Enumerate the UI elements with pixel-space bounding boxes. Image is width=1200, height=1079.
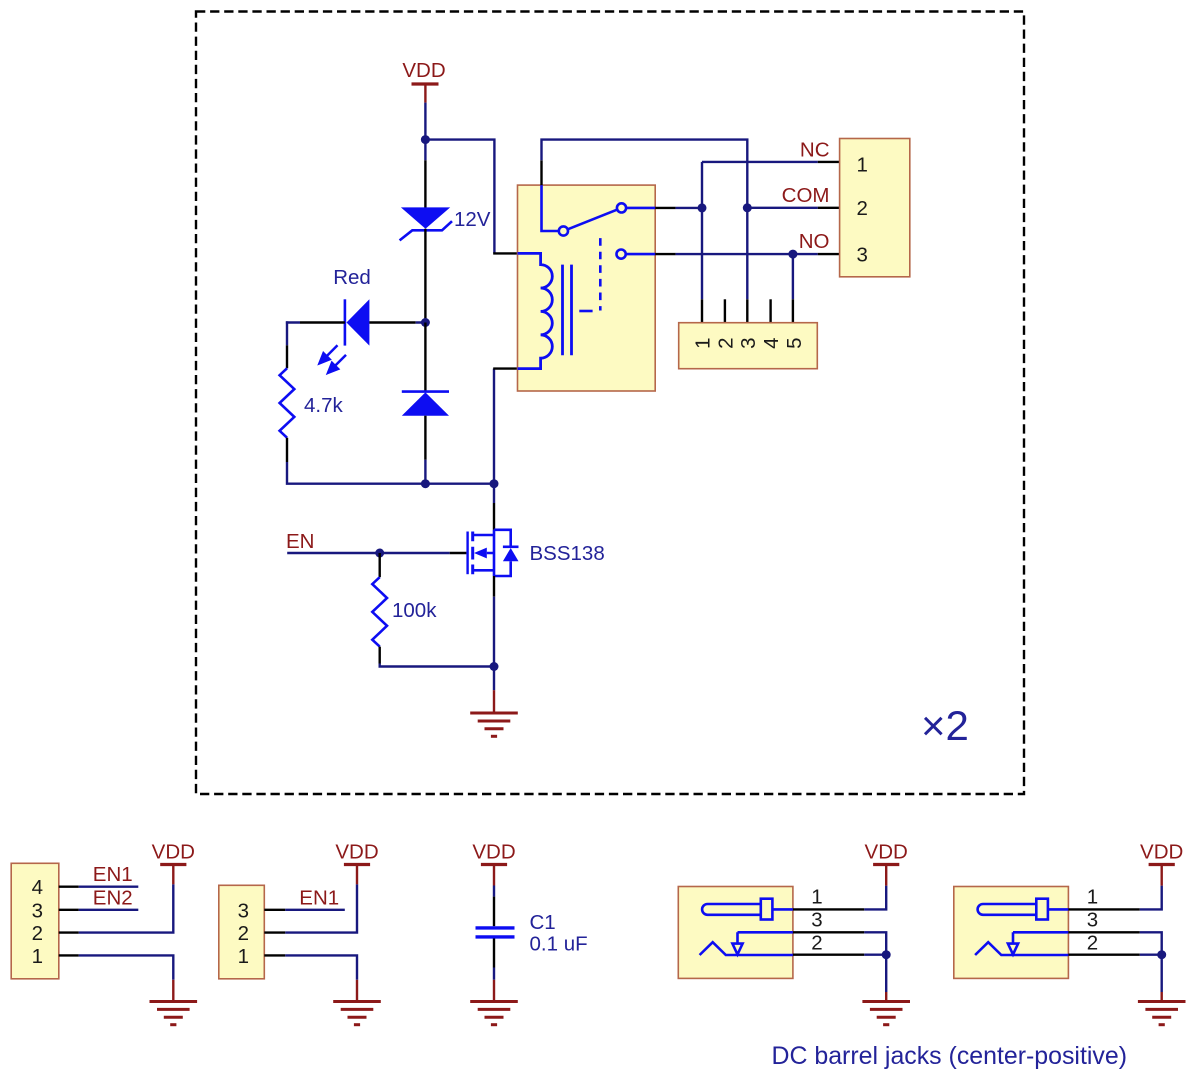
pin lead Q1 gate bbox=[450, 552, 467, 554]
ground stem (C1) bbox=[493, 980, 495, 1001]
relay coil bbox=[518, 253, 553, 368]
svg-text:COM: COM bbox=[782, 184, 830, 207]
svg-text:3: 3 bbox=[32, 899, 43, 922]
svg-text:3: 3 bbox=[811, 909, 822, 932]
svg-text:DC barrel jacks (center-positi: DC barrel jacks (center-positive) bbox=[772, 1042, 1127, 1070]
svg-text:1: 1 bbox=[32, 945, 43, 968]
power symbol VDD (main) bbox=[402, 59, 445, 103]
pin lead D3 bottom bbox=[424, 416, 426, 460]
wire EN1 (X4) bbox=[79, 886, 139, 888]
node LED junction bbox=[421, 318, 430, 327]
svg-text:4: 4 bbox=[32, 876, 43, 899]
wire node to zener bbox=[424, 140, 426, 161]
jack switch contact bbox=[732, 932, 793, 954]
relay NO contact bbox=[617, 250, 656, 259]
power symbol VDD (X4) bbox=[152, 841, 195, 885]
node NC junction bbox=[698, 203, 707, 212]
wire J1 node to ground bbox=[885, 955, 887, 992]
svg-text:VDD: VDD bbox=[472, 841, 515, 864]
pin lead X3 pin 5 bbox=[792, 299, 794, 323]
resistor R2 100k bbox=[372, 577, 387, 646]
svg-text:VDD: VDD bbox=[402, 59, 445, 82]
svg-text:1: 1 bbox=[857, 154, 868, 177]
pin lead X5 pin 2 bbox=[264, 931, 285, 933]
ground symbol (main) bbox=[470, 713, 518, 736]
wire J1 pin1 to VDD bbox=[864, 886, 886, 910]
svg-text:2: 2 bbox=[857, 197, 868, 220]
wire J1 pin3 to ground node bbox=[864, 932, 886, 954]
pin lead R1 bottom bbox=[286, 438, 288, 462]
svg-text:EN: EN bbox=[286, 530, 314, 553]
pin lead zener top bbox=[424, 160, 426, 207]
wire X4 pin1 to ground bbox=[79, 955, 174, 979]
pin lead relay NO contact bbox=[655, 253, 675, 255]
relay switch common entry bbox=[542, 185, 559, 231]
wire relay common pin lead (top) bbox=[540, 160, 542, 185]
connector X2 (terminal block NC/COM/NO) bbox=[840, 139, 910, 277]
svg-text:4.7k: 4.7k bbox=[304, 394, 343, 417]
LED D1 bbox=[345, 299, 370, 345]
ground symbol (X5) bbox=[333, 1002, 381, 1025]
ground stem (main) bbox=[493, 690, 495, 712]
wire X5 pin2 to VDD bbox=[285, 884, 357, 932]
wire source to ground bbox=[493, 597, 495, 691]
wire NC net bbox=[676, 162, 818, 299]
pin lead X4 pin 2 bbox=[59, 931, 79, 933]
pin lead X2 pin 3 bbox=[818, 253, 840, 255]
power symbol VDD (X5) bbox=[335, 841, 378, 885]
pin lead X3 pin 3 bbox=[746, 299, 748, 323]
DC barrel jack J2 (copy of J1) bbox=[954, 841, 1186, 1025]
pin lead R1 top bbox=[286, 345, 288, 368]
ground stem (X4) bbox=[172, 980, 174, 1001]
svg-text:2: 2 bbox=[238, 922, 249, 945]
wire COM net top run bbox=[542, 140, 748, 300]
pin lead X4 pin 1 bbox=[59, 954, 79, 956]
svg-text:EN2: EN2 bbox=[93, 886, 133, 909]
relay NC contact bbox=[617, 203, 655, 212]
svg-text:3: 3 bbox=[238, 899, 249, 922]
wire relay coil pin2 down to drain node bbox=[493, 369, 495, 484]
wire X4 pin2 to VDD bbox=[79, 884, 174, 932]
jack sleeve contact bbox=[700, 942, 793, 955]
connector X4 (4-pin header) bbox=[11, 863, 59, 979]
transistor Q1 BSS138 bbox=[468, 530, 519, 576]
svg-text:1: 1 bbox=[238, 945, 249, 968]
wire D3 to node bbox=[424, 460, 426, 484]
pin lead Q1 drain bbox=[493, 503, 495, 530]
node A (VDD junction) bbox=[421, 135, 430, 144]
ground stem (J1) bbox=[885, 992, 887, 1001]
node source junction bbox=[490, 662, 499, 671]
wire C1 to ground bbox=[493, 968, 495, 980]
relay K1 body bbox=[518, 185, 656, 391]
pin lead relay coil pin 1 bbox=[493, 252, 517, 254]
relay core bbox=[563, 265, 572, 356]
svg-text:Red: Red bbox=[333, 266, 371, 289]
svg-text:NC: NC bbox=[800, 139, 830, 162]
capacitor C1 bbox=[476, 928, 515, 937]
pin lead X3 pin 2 (n.c.) bbox=[724, 299, 726, 323]
wire zener to LED node bbox=[424, 229, 426, 323]
svg-text:C1: C1 bbox=[530, 911, 556, 934]
ground symbol (X4) bbox=[150, 1002, 198, 1025]
svg-text:VDD: VDD bbox=[335, 841, 378, 864]
svg-text:NO: NO bbox=[799, 230, 830, 253]
pin lead relay coil pin 2 bbox=[493, 367, 517, 369]
svg-text:3: 3 bbox=[857, 244, 868, 267]
wire diode D3 top lead bbox=[424, 323, 426, 392]
node COM junction bbox=[743, 203, 752, 212]
relay switch arm bbox=[568, 210, 618, 230]
pin lead relay NC contact bbox=[655, 207, 675, 209]
node J1 ground junction bbox=[882, 950, 891, 959]
pin lead J1 pin 2 bbox=[793, 954, 864, 956]
svg-text:0.1 uF: 0.1 uF bbox=[530, 932, 588, 955]
pin lead C1 top bbox=[493, 897, 495, 927]
pin lead R2 top bbox=[379, 553, 381, 577]
DC barrel jack J1 bbox=[678, 841, 910, 1025]
wire LED right lead to node bbox=[369, 321, 415, 323]
jack center pin bbox=[702, 899, 793, 920]
svg-text:EN1: EN1 bbox=[299, 886, 339, 909]
wire VDD stem to node bbox=[424, 103, 426, 140]
node bottom rail right (drain) bbox=[490, 479, 499, 488]
wire VDD node to relay coil pin 1 bbox=[425, 140, 494, 254]
svg-text:VDD: VDD bbox=[152, 841, 195, 864]
svg-text:1: 1 bbox=[692, 337, 715, 348]
wire VDD to C1 bbox=[493, 886, 495, 897]
svg-text:2: 2 bbox=[811, 932, 822, 955]
node EN junction bbox=[375, 549, 384, 558]
pin lead X3 pin 4 (n.c.) bbox=[769, 299, 771, 323]
wire LED elbow down to R1 bbox=[286, 321, 288, 345]
wire NO net bbox=[676, 254, 818, 299]
ground symbol (C1) bbox=[470, 1002, 518, 1025]
wire EN1 (X5) bbox=[285, 909, 345, 911]
svg-text:3: 3 bbox=[737, 337, 760, 348]
ground stem (X5) bbox=[356, 980, 358, 1001]
svg-text:VDD: VDD bbox=[865, 841, 908, 864]
power symbol VDD (C1) bbox=[472, 841, 515, 886]
relay actuator dashed link bbox=[579, 238, 600, 311]
svg-text:100k: 100k bbox=[392, 599, 437, 622]
wire COM to connector pin 2 bbox=[747, 207, 818, 209]
wire EN2 (X4) bbox=[79, 909, 139, 911]
svg-text:2: 2 bbox=[32, 922, 43, 945]
svg-text:4: 4 bbox=[760, 337, 783, 348]
relay switch pivot contact bbox=[559, 226, 568, 235]
pin lead Q1 source bbox=[493, 576, 495, 597]
pin lead X2 pin 2 bbox=[818, 207, 840, 209]
pin lead X3 pin 1 bbox=[701, 299, 703, 323]
LED emission arrows bbox=[320, 345, 347, 373]
svg-text:12V: 12V bbox=[454, 208, 491, 231]
dashed schematic frame bbox=[196, 12, 1024, 795]
wire drain node to Q1 bbox=[493, 484, 495, 503]
wire EN net bbox=[287, 552, 450, 554]
wire bottom rail bbox=[425, 483, 494, 485]
flyback diode D3 bbox=[402, 392, 449, 416]
node bottom rail left bbox=[421, 479, 430, 488]
svg-text:2: 2 bbox=[714, 337, 737, 348]
svg-text:5: 5 bbox=[783, 337, 806, 348]
pin lead X5 pin 3 bbox=[264, 909, 285, 911]
wire J1 pin2 to ground node bbox=[864, 954, 886, 956]
pin lead C1 bottom bbox=[493, 939, 495, 968]
resistor R1 4.7k bbox=[280, 368, 295, 437]
connector X5 (3-pin header) bbox=[219, 885, 264, 979]
svg-text:×2: ×2 bbox=[921, 702, 969, 749]
svg-text:EN1: EN1 bbox=[93, 863, 133, 886]
pin lead X4 pin 4 bbox=[59, 886, 79, 888]
pin lead X4 pin 3 bbox=[59, 909, 79, 911]
pin lead X2 pin 1 bbox=[818, 161, 840, 163]
node NO junction bbox=[788, 250, 797, 259]
ground symbol (J1) bbox=[862, 1002, 910, 1025]
wire R1 to bottom rail bbox=[287, 462, 425, 484]
pin lead X5 pin 1 bbox=[264, 954, 285, 956]
pin lead J1 pin 1 bbox=[793, 908, 864, 910]
wire LED to junction bbox=[286, 321, 426, 323]
jack body bbox=[678, 887, 793, 979]
svg-text:1: 1 bbox=[811, 886, 822, 909]
zener diode 12V bbox=[400, 207, 452, 240]
connector X3 (5-pin header) bbox=[679, 323, 818, 369]
svg-text:BSS138: BSS138 bbox=[530, 542, 605, 565]
wire X5 pin1 to ground bbox=[285, 955, 357, 979]
wire LED left lead bbox=[300, 321, 345, 323]
pin lead R2 bottom bbox=[379, 647, 381, 664]
wire R2 to source net bbox=[380, 664, 494, 667]
pin lead J1 pin 3 bbox=[793, 931, 864, 933]
